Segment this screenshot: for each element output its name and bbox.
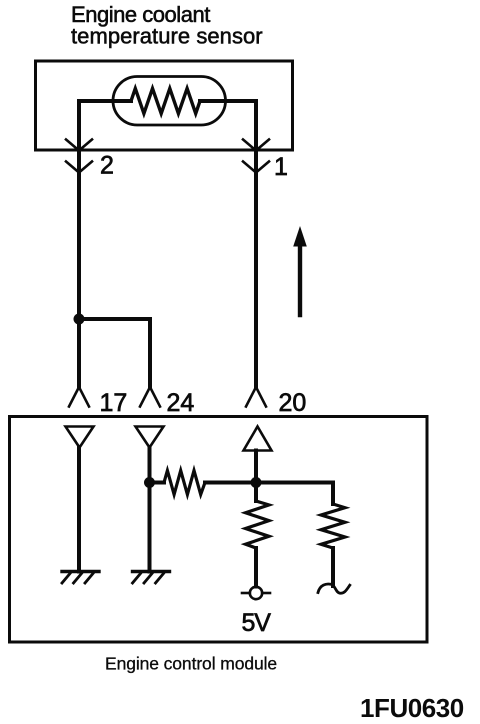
thermistor RT (sensor resistor) — [131, 89, 200, 114]
ECM box outline — [10, 417, 428, 643]
svg-text:24: 24 — [167, 389, 195, 417]
sensor box outline — [36, 61, 293, 150]
wire: junction right and down to R3 — [256, 483, 333, 505]
svg-text:17: 17 — [100, 389, 128, 417]
resistor R2 (vertical, to 5V) — [246, 501, 270, 548]
connector pin 1 chevron (lower) — [243, 162, 269, 173]
junction node on pin 20 wire — [251, 477, 262, 488]
resistor R3 (vertical, to internal ground) — [321, 504, 345, 548]
wire: pin 2 down to ECM pin 17 — [77, 150, 81, 387]
connector pin 1 chevron (upper, at sensor box edge) — [243, 140, 269, 151]
svg-text:2: 2 — [100, 152, 114, 180]
resistor R1 (horizontal) — [164, 471, 205, 495]
wire: junction down to R2 — [254, 483, 258, 502]
wire: junction to R1 — [150, 481, 165, 485]
ECM pin 20 terminal triangle (up) — [244, 427, 272, 451]
svg-text:20: 20 — [279, 389, 307, 417]
svg-text:temperature sensor: temperature sensor — [71, 23, 263, 48]
wire: junction to ECM pin 24 — [79, 319, 150, 387]
wire: resistor right to pin 1 drop — [200, 101, 256, 150]
wire: pin 17 to ground — [77, 448, 81, 572]
wire: R3 down to squiggle ground — [331, 548, 335, 586]
ECM pin 24 terminal triangle (down) — [136, 427, 164, 448]
connector pin 2 chevron (lower) — [66, 162, 92, 173]
ground symbol (pin 17) — [62, 572, 99, 584]
svg-text:1: 1 — [274, 153, 288, 181]
svg-text:Engine control module: Engine control module — [105, 654, 277, 674]
ground symbol (pin 24) — [133, 572, 170, 584]
wire: R2 to 5V terminal — [254, 548, 258, 587]
sensor body oval — [113, 77, 226, 126]
junction node (wire split to pin 24) — [74, 314, 85, 325]
wire: pin 1 down to ECM pin 20 — [254, 150, 258, 387]
connector splay at ECM pin 24 — [140, 387, 160, 407]
wire: pin 24 to ground — [148, 448, 152, 572]
svg-text:1FU0630: 1FU0630 — [360, 693, 464, 723]
ECM pin 17 terminal triangle (down) — [66, 427, 94, 448]
label: Engine coolant temperature sensor (title) — [71, 2, 263, 48]
5V supply terminal circle — [242, 587, 270, 599]
wire: R1 to pin 20 line — [205, 481, 256, 485]
svg-text:5V: 5V — [242, 609, 272, 637]
connector splay at ECM pin 20 — [246, 387, 266, 407]
connector pin 2 chevron (upper, at sensor box edge) — [66, 140, 92, 151]
wire: resistor left to pin 2 drop — [79, 101, 131, 150]
connector splay at ECM pin 17 — [69, 387, 89, 407]
squiggle ground (resistive ground) — [318, 584, 350, 593]
junction node on pin 24 wire — [144, 477, 155, 488]
wire: pin 20 triangle down to junction — [254, 451, 258, 483]
signal direction arrow (up) — [293, 226, 307, 315]
